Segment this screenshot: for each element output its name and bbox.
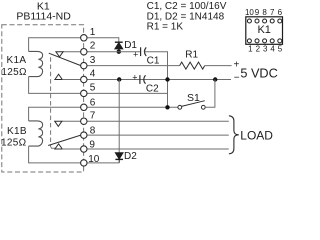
pin 7 [81, 118, 87, 124]
armature K1B (pin8 common) [48, 135, 81, 145]
wire row1 pin1 to D1 [87, 38, 119, 42]
svg-text:C1: C1 [147, 55, 160, 66]
DIP package K1 pinout [245, 8, 283, 53]
wire row2 pin2 to C1 [87, 51, 141, 53]
svg-text:−: − [234, 73, 240, 84]
svg-text:4: 4 [270, 45, 275, 54]
pin 6 [81, 104, 87, 110]
NC contact triangle K1A [56, 52, 63, 57]
svg-text:5: 5 [278, 45, 283, 54]
capacitor C1 [133, 47, 146, 59]
wire S1 to row4 [205, 80, 215, 108]
svg-text:K1A: K1A [7, 55, 27, 66]
capacitor C2 [132, 72, 145, 84]
pin 5 [81, 90, 87, 96]
DIP body [246, 17, 283, 45]
junction dot row6 vertical [165, 105, 169, 109]
junction dot D1 row2 [117, 50, 121, 54]
wire coil K1B bottom to pin10 [29, 146, 81, 163]
svg-text:125Ω: 125Ω [1, 137, 27, 148]
coil K1B [29, 121, 43, 146]
NO contact triangle K1A [55, 74, 62, 79]
DIP pin holes bottom row [247, 39, 251, 43]
diode D1 [115, 42, 123, 52]
wire pin7 to NC contact K1B [62, 120, 81, 122]
pin 9 [81, 146, 87, 152]
wire pin1 to coil K1A top [29, 38, 81, 52]
wire pin6 to coil K1B top [29, 107, 81, 121]
svg-text:D2: D2 [124, 151, 137, 162]
wire C1 right to vertical [145, 52, 168, 108]
wire R1 to plus terminal [205, 65, 232, 67]
pin 2 [81, 49, 87, 55]
pin 3 [81, 62, 87, 68]
svg-text:R1: R1 [185, 50, 198, 61]
svg-text:4: 4 [90, 69, 96, 80]
NO contact triangle K1B [55, 144, 62, 149]
pin 8 [81, 132, 87, 138]
svg-text:2: 2 [256, 45, 261, 54]
svg-text:125Ω: 125Ω [1, 67, 27, 78]
svg-text:5: 5 [90, 83, 96, 94]
wire row4 to D2 vertical [118, 80, 120, 153]
svg-text:3: 3 [263, 45, 268, 54]
armature K1A (pin3 common) [49, 53, 81, 65]
relay K1 dashed package outline [2, 25, 84, 172]
svg-text:9: 9 [255, 8, 260, 17]
svg-text:+: + [132, 72, 137, 82]
wire coil K1A bottom to pin5 [29, 77, 81, 94]
svg-text:K1B: K1B [7, 126, 27, 137]
svg-text:D1, D2 = 1N4148: D1, D2 = 1N4148 [147, 11, 225, 22]
svg-text:5 VDC: 5 VDC [240, 67, 277, 81]
svg-text:8: 8 [90, 125, 96, 136]
coil K1A [29, 51, 43, 76]
NC contact triangle K1B [55, 121, 62, 126]
switch S1 [178, 101, 205, 110]
pin 4 [81, 76, 87, 82]
svg-text:+: + [133, 50, 138, 60]
svg-text:7: 7 [90, 111, 96, 122]
junction dot row4 S1 vertical [213, 77, 217, 81]
svg-text:1: 1 [248, 45, 253, 54]
svg-text:10: 10 [88, 154, 100, 165]
svg-text:1: 1 [90, 27, 96, 38]
diode D2 [115, 153, 123, 163]
svg-text:7: 7 [270, 8, 275, 17]
svg-text:R1 = 1K: R1 = 1K [147, 22, 184, 33]
svg-text:S1: S1 [187, 92, 200, 104]
svg-text:6: 6 [90, 98, 96, 109]
svg-text:10: 10 [245, 8, 254, 17]
wire row3 pin3 to R1 [87, 65, 180, 67]
junction dot row4 C1 vertical [165, 77, 169, 81]
wire row9 pin9 to load [87, 148, 229, 150]
svg-text:2: 2 [90, 41, 96, 52]
wire NO contact to pin4 [62, 79, 80, 81]
wire row8 pin8 to load [87, 134, 229, 136]
svg-text:PB1114-ND: PB1114-ND [16, 10, 71, 22]
wire row6 pin6 to S1 [87, 106, 178, 108]
wire row4 pin4 to minus terminal [87, 79, 231, 81]
svg-text:3: 3 [90, 55, 96, 66]
mechanical link hook [51, 147, 55, 149]
svg-text:LOAD: LOAD [240, 129, 273, 143]
svg-text:6: 6 [278, 8, 283, 17]
load brace [229, 116, 239, 154]
svg-text:K1: K1 [257, 24, 270, 36]
svg-text:+: + [234, 59, 240, 70]
wire row7 pin7 to load [87, 120, 229, 122]
wire NO contact to pin9 [62, 148, 80, 150]
pin 10 [81, 160, 87, 166]
wire row5 pin5 to vertical [87, 92, 168, 94]
svg-text:C2: C2 [146, 84, 159, 95]
svg-text:9: 9 [89, 140, 95, 151]
wire pin2 to NC contact K1A [63, 51, 81, 53]
mechanical link dashed line [50, 57, 52, 146]
DIP pin holes top row [247, 19, 251, 23]
junction dot row4 D2 [117, 77, 121, 81]
resistor R1 [180, 62, 205, 69]
wire row10 pin10 to D2 [87, 162, 119, 164]
svg-text:8: 8 [262, 8, 267, 17]
pin 1 [81, 35, 87, 41]
